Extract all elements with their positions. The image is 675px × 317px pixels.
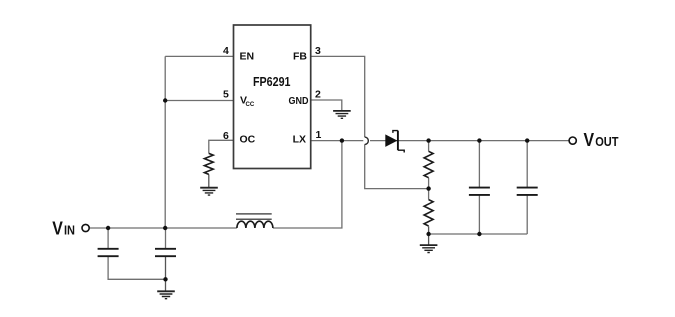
- svg-text:LX: LX: [293, 133, 306, 145]
- wire Cin1 bottom lead to Cin2 bottom: [108, 256, 165, 279]
- resistor R1: [424, 151, 433, 177]
- wire Cin2 bottom lead to ground: [165, 256, 167, 291]
- wire bottom output rail: [429, 233, 528, 235]
- capacitor CIN1: [98, 249, 119, 256]
- wire FB below hop to divider midpoint: [365, 144, 429, 188]
- wire OC resistor bottom lead: [208, 174, 210, 187]
- svg-text:5: 5: [223, 89, 229, 101]
- svg-text:6: 6: [223, 130, 229, 142]
- svg-text:GND: GND: [289, 95, 309, 107]
- wire FB pin3 right and down to hop: [311, 56, 365, 137]
- svg-text:EN: EN: [240, 50, 255, 62]
- svg-text:FP6291: FP6291: [253, 74, 291, 89]
- capacitor COUT1: [469, 188, 490, 195]
- node dot output rail / COUT2: [525, 138, 529, 142]
- terminal VOUT: [569, 137, 576, 144]
- terminal VIN: [82, 224, 89, 231]
- wire Cin1 top lead: [107, 228, 109, 249]
- wire LX down to inductor rail: [273, 141, 342, 228]
- capacitor COUT2: [517, 188, 538, 195]
- diode D1 schottky: [385, 131, 404, 153]
- capacitor CIN2: [155, 249, 176, 256]
- svg-text:FB: FB: [293, 50, 307, 62]
- svg-text:1: 1: [316, 129, 322, 141]
- svg-text:V: V: [584, 129, 595, 150]
- wire R1 top lead: [428, 141, 430, 152]
- node dot output rail / R1: [426, 138, 430, 142]
- wire Cout2 leads: [526, 141, 528, 234]
- node dot COUT1 bottom rail: [477, 232, 481, 236]
- ground under input caps: [157, 291, 175, 298]
- node dot LX / inductor: [340, 138, 344, 142]
- svg-text:OC: OC: [240, 133, 256, 145]
- ground under R2: [420, 245, 438, 252]
- op-amp U1 FP6291 IC body: [234, 25, 311, 169]
- wire GND pin2 to ground: [311, 100, 342, 111]
- node dot FB divider midpoint: [426, 186, 430, 190]
- wire LX pin1 to crossing: [311, 140, 364, 142]
- wire VIN rail to inductor: [90, 227, 237, 229]
- wire Cin2 top lead: [165, 228, 167, 249]
- wire Cout1 leads: [478, 141, 480, 234]
- node dot output rail / COUT1: [477, 138, 481, 142]
- wire OC pin6 down to resistor: [209, 140, 234, 153]
- inductor L1 coil: [237, 221, 273, 228]
- svg-text:3: 3: [315, 45, 321, 57]
- inductor L1 core lines: [236, 214, 272, 219]
- node dot R2 bottom / bottom rail: [426, 232, 430, 236]
- node dot CIN2 bottom / ground: [163, 277, 167, 281]
- svg-text:OUT: OUT: [595, 134, 618, 149]
- ground under OC resistor: [200, 188, 218, 195]
- wire EN pin4 to left vertical: [165, 55, 233, 57]
- wire R2 bottom lead to ground: [428, 226, 430, 245]
- wire R1-R2 middle leads: [428, 178, 430, 200]
- wire hop FB over LX: [365, 137, 369, 144]
- svg-text:2: 2: [315, 89, 321, 101]
- node dot left vertical / VIN rail: [163, 226, 167, 230]
- resistor R2: [424, 200, 433, 226]
- wire left vertical EN/VCC to VIN rail: [164, 56, 166, 228]
- svg-text:V: V: [52, 218, 63, 239]
- wire LX output rail to VOUT terminal: [370, 140, 569, 142]
- svg-text:4: 4: [223, 45, 229, 57]
- svg-text:IN: IN: [64, 223, 75, 238]
- ground at GND pin: [333, 111, 351, 118]
- svg-text:CC: CC: [246, 101, 255, 108]
- node dot left vertical / VCC: [163, 98, 167, 102]
- node dot VIN/CIN1: [106, 226, 110, 230]
- wire VCC pin5: [165, 100, 233, 102]
- resistor R-OC: [204, 153, 213, 174]
